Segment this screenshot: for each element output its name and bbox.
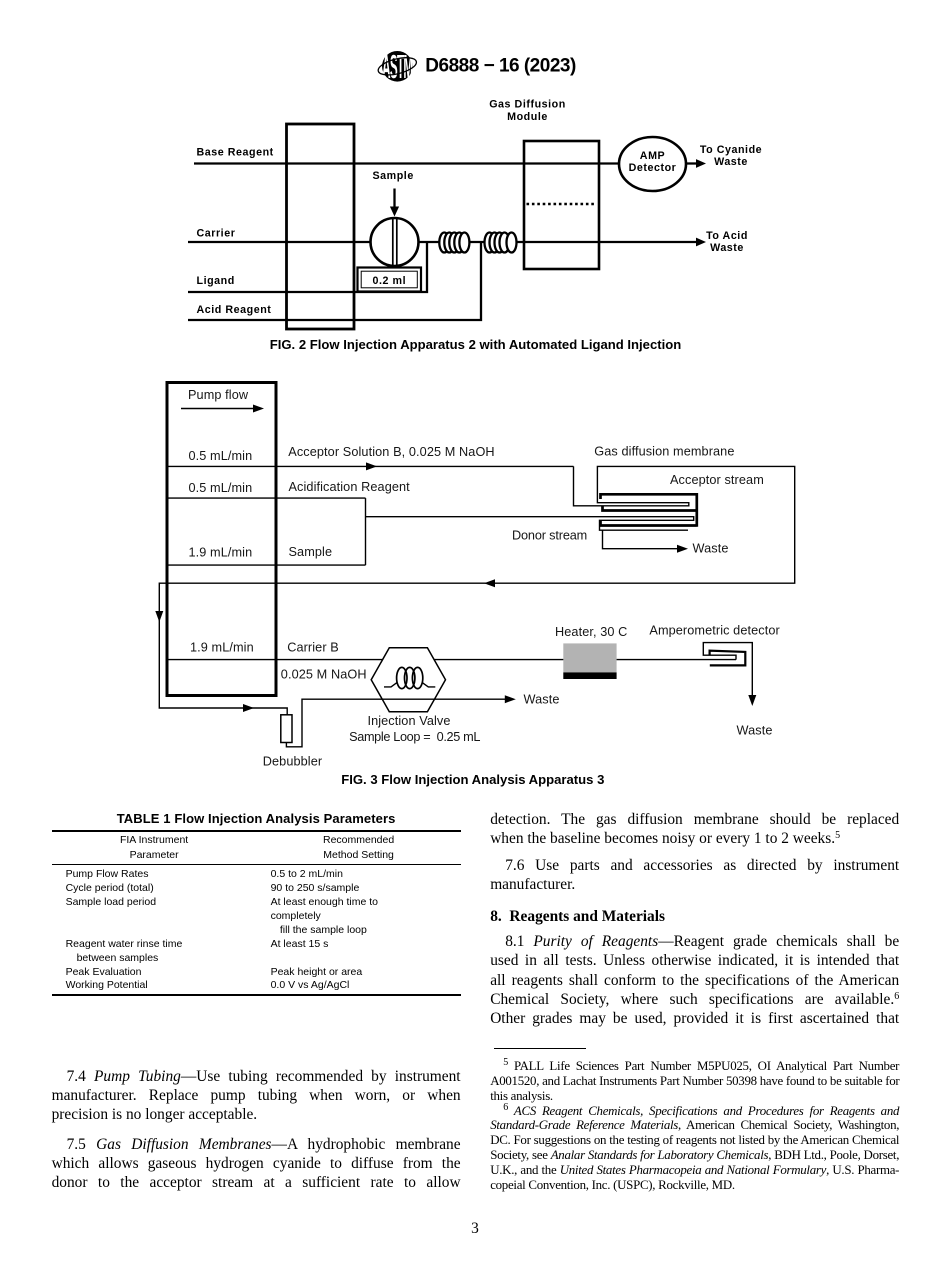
mixing coil 1 <box>439 233 469 253</box>
svg-text:Base Reagent: Base Reagent <box>197 147 274 159</box>
svg-text:Waste: Waste <box>524 693 560 707</box>
svg-text:1.9 mL/min: 1.9 mL/min <box>189 546 253 560</box>
page number <box>0 1220 950 1238</box>
svg-text:FIG. 2 Flow Injection Apparatu: FIG. 2 Flow Injection Apparatus 2 with A… <box>270 337 682 352</box>
pump block FIG3 <box>167 383 276 696</box>
svg-text:Waste: Waste <box>693 541 729 555</box>
AMP detector ellipse <box>619 137 686 191</box>
footnotes <box>490 1059 899 1192</box>
svg-text:Waste: Waste <box>714 156 748 168</box>
svg-text:Sample: Sample <box>373 170 414 182</box>
svg-text:Pump flow: Pump flow <box>188 388 249 402</box>
svg-text:Injection Valve: Injection Valve <box>367 714 450 728</box>
svg-text:Module: Module <box>507 111 548 123</box>
svg-text:D6888 − 16 (2023): D6888 − 16 (2023) <box>425 56 576 77</box>
wire acceptor loop and return line <box>159 466 794 714</box>
svg-text:Sample Loop = 0.25 mL: Sample Loop = 0.25 mL <box>349 730 480 744</box>
svg-text:1.9 mL/min: 1.9 mL/min <box>190 641 254 655</box>
sample loop coil in valve <box>384 683 435 687</box>
footnote rule <box>494 1048 587 1049</box>
injection valve hexagon <box>371 648 445 712</box>
membrane dotted line <box>527 203 597 206</box>
wire acid reagent line <box>188 242 481 320</box>
svg-text:0.5 mL/min: 0.5 mL/min <box>189 481 253 495</box>
svg-text:0.2 ml: 0.2 ml <box>372 275 406 287</box>
svg-text:Gas diffusion membrane: Gas diffusion membrane <box>594 445 734 459</box>
svg-text:Detector: Detector <box>629 162 677 174</box>
debubbler outlet to waste <box>286 699 507 747</box>
pump flow arrow <box>181 408 254 410</box>
sample channel box <box>167 498 366 565</box>
svg-text:FIG. 3 Flow Injection Analysis: FIG. 3 Flow Injection Analysis Apparatus… <box>341 772 604 787</box>
svg-text:Waste: Waste <box>710 242 744 254</box>
svg-text:Gas Diffusion: Gas Diffusion <box>489 99 566 111</box>
wire carrier B line <box>167 659 736 661</box>
wire base reagent line <box>194 162 619 164</box>
wire acidification reagent line <box>167 497 366 499</box>
membrane waste line <box>603 530 681 549</box>
injection valve circle V1 <box>371 218 419 266</box>
TABLE 1 <box>52 812 461 996</box>
svg-text:AMP: AMP <box>640 150 665 162</box>
wire carrier line <box>188 241 698 243</box>
svg-text:Sample: Sample <box>289 545 333 559</box>
svg-text:Ligand: Ligand <box>197 275 235 287</box>
ASTM logo <box>376 50 418 86</box>
right column upper text <box>490 810 899 848</box>
amperometric detector cell <box>703 643 752 698</box>
pump block FIG2 <box>287 124 355 329</box>
right arrowhead to debubbler <box>243 704 254 712</box>
sample loop volume box 0.2 ml <box>358 268 422 292</box>
svg-text:Waste: Waste <box>737 723 773 737</box>
svg-text:ASTM: ASTM <box>382 50 413 86</box>
svg-text:Debubbler: Debubbler <box>263 755 323 769</box>
svg-text:Acceptor Solution B, 0.025 M N: Acceptor Solution B, 0.025 M NaOH <box>288 445 494 459</box>
svg-text:Acid Reagent: Acid Reagent <box>197 304 272 316</box>
svg-text:Acidification Reagent: Acidification Reagent <box>289 480 411 494</box>
wire ligand line <box>188 242 427 292</box>
svg-text:Carrier: Carrier <box>197 228 236 240</box>
wire acceptor solution line <box>167 465 574 467</box>
svg-text:To Acid: To Acid <box>706 230 748 242</box>
debubbler <box>281 715 292 743</box>
wire to cyanide waste arrow <box>686 162 698 164</box>
svg-text:Donor stream: Donor stream <box>512 529 587 543</box>
wire donor stream line <box>366 517 694 531</box>
heater block <box>563 643 616 672</box>
mixing coil 2 <box>485 233 517 253</box>
svg-text:Carrier B: Carrier B <box>287 641 339 655</box>
detector waste down arrowhead <box>748 695 756 706</box>
svg-text:Acceptor stream: Acceptor stream <box>670 473 764 487</box>
svg-text:0.5 mL/min: 0.5 mL/min <box>189 449 253 463</box>
svg-text:Amperometric detector: Amperometric detector <box>649 624 780 638</box>
gas diffusion module block <box>524 141 599 269</box>
left column lower text <box>52 1067 461 1125</box>
svg-text:Heater, 30 C: Heater, 30 C <box>555 625 627 639</box>
svg-text:To Cyanide: To Cyanide <box>700 144 762 156</box>
svg-text:0.025 M NaOH: 0.025 M NaOH <box>281 667 367 681</box>
down arrowhead on left drop <box>155 611 163 622</box>
membrane block bars <box>601 493 697 527</box>
sample arrow <box>393 189 395 209</box>
wire to acid waste arrowhead <box>696 238 706 247</box>
return line left arrowhead <box>484 579 495 587</box>
